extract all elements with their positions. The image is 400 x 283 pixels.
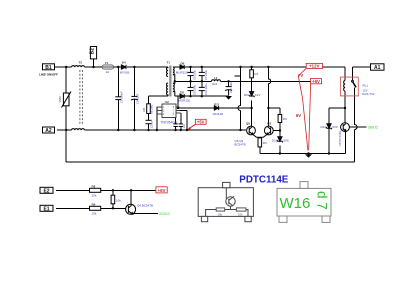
terminal A2 [43,127,55,134]
red annotation +6V [311,79,322,84]
wire A1 to relay contact [353,66,371,68]
relay coil [344,81,345,92]
svg-text:D6: D6 [181,62,185,66]
svg-text:10k: 10k [116,199,121,203]
IC U2 TNY264 [157,104,181,118]
wire ground rail secondary [260,153,346,155]
svg-text:T1: T1 [167,61,171,65]
svg-text:R6: R6 [142,107,146,111]
svg-text:NAIS TX2: NAIS TX2 [362,92,375,96]
svg-text:RL1: RL1 [363,83,369,87]
ground symbol at 6V wire [305,154,312,158]
PDTC114E internal resistors [216,208,246,211]
svg-text:W16: W16 [280,195,311,212]
svg-text:10k: 10k [92,211,97,215]
red annotation lines V [298,69,310,151]
wire VDR branch [65,67,67,93]
svg-text:C9: C9 [182,124,186,128]
svg-text:R9: R9 [92,202,96,206]
wire vertical R x112.9 [112,190,114,208]
svg-text:D10: D10 [272,139,278,143]
wire rail6 outer loop [66,161,354,163]
resistor R1 [250,70,254,78]
svg-text:MUR120: MUR120 [178,99,190,103]
wire Q4 emitter out [134,212,158,214]
transistor Q4 [126,204,136,214]
resistor R9 [90,206,101,210]
wire U2 bypass cap column [175,117,177,130]
terminal B2 [90,47,97,59]
svg-text:10k: 10k [92,193,97,197]
red annotation +6V bottom [156,187,167,193]
wire emitter resistor chain [259,137,261,153]
svg-text:R4: R4 [283,117,287,121]
svg-text:C2 10uF: C2 10uF [135,93,139,104]
svg-text:+6V: +6V [158,188,166,193]
capacitor C6 row1 [188,72,194,75]
wire +12V box to relay coil [323,66,346,68]
marking box W16 [277,182,331,223]
ground symbol C11 [225,96,232,100]
wire B2 lead [93,59,95,67]
svg-text:F1: F1 [105,61,109,65]
resistor R6 [147,104,151,114]
varistor VDR [62,92,72,108]
wire rail3 secondary [175,95,229,97]
svg-text:Q3: Q3 [267,122,271,126]
PDTC114E internal transistor [206,188,248,217]
capacitor C10 row2 [199,87,205,90]
svg-text:R6 2M2: R6 2M2 [150,104,154,114]
svg-text:C5 1n: C5 1n [149,120,153,128]
svg-text:A1: A1 [374,65,381,71]
svg-text:R1: R1 [255,72,259,76]
svg-text:12V: 12V [255,93,260,97]
svg-text:+5V: +5V [197,119,205,124]
capacitor C9 at U2 [179,124,183,127]
wire left outer corner [65,130,67,162]
choke T2 top winding [72,66,85,67]
svg-text:C7 220u: C7 220u [204,69,208,80]
svg-text:D5: D5 [180,91,184,95]
wire relay driver emitter [345,132,347,154]
wire U2 pin to +5V node [180,111,188,131]
choke T2 core dashes [80,70,83,126]
svg-text:C8 220u: C8 220u [192,84,196,95]
wire cap column C1 [117,67,119,130]
svg-text:LINE ON/OFF: LINE ON/OFF [39,72,58,76]
diode D5 [180,94,184,98]
transformer T1 [167,67,175,96]
wire E2 row [56,189,156,191]
choke T2 bottom winding [72,129,85,130]
wire rail2 +6V [175,80,311,82]
red annotation +12V [306,63,322,68]
capacitor C1 [115,97,121,100]
svg-text:B2: B2 [90,48,96,55]
diode D11 [214,106,218,110]
svg-text:20/U2: 20/U2 [159,211,170,216]
wire feedback vertical x240.5 with hop over rail4 [238,67,240,130]
svg-text:6V: 6V [296,113,301,118]
svg-text:1A: 1A [106,70,110,74]
wire E1 row [56,207,126,209]
wire D6 to +12V box (rail1 +12V) [184,66,306,68]
terminal B1 [43,64,55,71]
svg-text:A2: A2 [45,128,52,134]
svg-text:C6 220u: C6 220u [192,69,196,80]
wire T1 primary bottom to R6 [149,95,169,97]
wire feedback stub [235,75,241,77]
capacitor C11 output [225,87,232,91]
svg-text:T2: T2 [79,61,83,65]
wire R1 zener chain x251.6 [251,67,253,126]
relay contact [352,80,356,87]
diode D6 [180,65,184,69]
capacitor C7 row1 [199,72,205,75]
terminal E2 [40,187,53,194]
svg-text:D11: D11 [214,102,220,106]
svg-text:C10 220u: C10 220u [204,83,208,95]
svg-text:E2: E2 [43,188,49,194]
wire relay driver collector [344,108,346,123]
capacitor C2 [131,96,138,100]
svg-text:PDTC114E: PDTC114E [338,131,342,146]
resistor R10 vertical [111,195,115,204]
zener D12 [326,124,331,130]
svg-text:C11 100u: C11 100u [229,81,233,93]
terminal A1 [371,64,385,71]
svg-text:+6V: +6V [312,79,320,84]
wire 38/U2 with hop [349,126,366,128]
T1 core [169,66,171,97]
wire relay coil leads [344,67,346,108]
diode D4 [121,65,126,69]
svg-text:10k: 10k [218,212,223,216]
svg-text:U2: U2 [165,100,169,104]
wire Q4 collector [130,190,132,204]
svg-text:BYV26: BYV26 [120,70,130,74]
wire U2 left pin column [156,107,158,130]
svg-text:R8: R8 [92,184,96,188]
svg-text:+12V: +12V [309,64,319,69]
transistor Q1 [247,126,260,137]
svg-text:VDR: VDR [58,96,62,103]
svg-text:1N4148: 1N4148 [212,112,223,116]
capacitor C5 [146,120,152,123]
svg-text:d 7: d 7 [315,191,330,210]
wire zener chain x325.5 [328,108,330,154]
capacitor C8 row2 [188,87,194,90]
wire rail5 A2 line primary return [57,129,246,131]
svg-text:D4: D4 [122,60,126,64]
svg-text:6V2: 6V2 [332,125,338,129]
svg-text:MUR120: MUR120 [176,71,188,75]
red annotation +5V [195,119,206,124]
wire U2 EN pin cap column [180,113,182,130]
transistor Q2 [260,126,273,137]
svg-text:E1: E1 [43,206,49,212]
svg-text:3u3: 3u3 [212,82,217,86]
wire D4 to T1 [127,66,168,68]
wire relay contact leads [353,67,357,162]
svg-text:10k: 10k [238,212,243,216]
svg-text:C1 100nF: C1 100nF [119,91,123,103]
wire R zener chain x279.9 [279,108,281,154]
wire fuse to D4 [114,66,122,68]
svg-text:BC547B: BC547B [234,143,245,147]
wire T1 to D6 [173,66,180,68]
svg-text:Q4 BC547B: Q4 BC547B [137,204,153,208]
svg-text:D9: D9 [244,93,248,97]
PDTC114E package drawing [198,182,253,221]
wire B1 to choke (rail1 left) [55,66,103,68]
svg-text:PDTC114E: PDTC114E [239,175,288,186]
svg-text:D12: D12 [321,125,327,129]
inductor L1 [212,80,221,82]
wire U2 drain riser [177,96,179,108]
fuse F1 [102,65,114,69]
wire Q2 base segment [273,130,280,132]
wire x268.4 vertical with hop over rail2 [268,67,270,126]
relay RL1 box [340,77,358,96]
wire R6 chain [148,96,150,130]
svg-text:B1: B1 [45,65,52,71]
svg-text:R3: R3 [263,141,267,145]
wire secondary cap column x190.5 [190,67,192,96]
resistor R8 [90,188,101,192]
svg-text:5V6: 5V6 [283,139,289,143]
zener D10 [277,137,282,143]
terminal E1 [40,205,53,212]
wire cap column C2 [133,67,135,130]
wire output cap column x228.6 [228,81,230,86]
wire rail4 [178,107,345,109]
svg-text:38/U2: 38/U2 [368,125,379,130]
resistor R4 [278,115,282,123]
svg-text:L1: L1 [214,76,218,80]
transistor Q6 relay driver [341,123,350,132]
svg-text:Q5: Q5 [246,122,250,126]
wire secondary cap column x201.8 [201,67,203,96]
resistor R emitter [258,138,262,147]
zener D9 [249,92,254,98]
capacitor C3 at U2 [173,124,177,127]
